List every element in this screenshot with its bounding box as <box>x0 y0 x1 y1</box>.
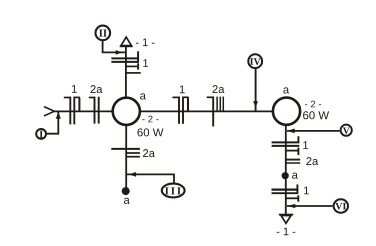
capacitor 1 (right stem upper) <box>272 136 300 155</box>
wire from node VI to right stem <box>287 205 333 207</box>
wire: main horizontal left segment <box>54 110 112 112</box>
arrow down at main wire from IV <box>253 101 258 107</box>
node II terminal circle <box>96 26 111 41</box>
label a (left stem bottom) <box>124 198 130 204</box>
label a at tube V1 <box>140 93 146 99</box>
tube V1 circle (left, 60 W) <box>113 98 140 125</box>
wire: right tube cathode stem down <box>285 126 287 214</box>
wire from node II to antenna stem <box>103 41 126 52</box>
node V terminal circle <box>341 125 352 136</box>
label - 1 - (bottom) <box>277 228 296 236</box>
antenna symbol - 1 - (triangle up) <box>120 37 133 46</box>
wire from node V to right stem <box>287 130 340 132</box>
label 1 (middle) <box>180 85 185 93</box>
label 2a <box>91 85 103 93</box>
label 2a (left tube cathode) <box>143 149 155 157</box>
capacitor 2a (left, on main wire) <box>89 97 99 124</box>
label 1 <box>72 85 77 93</box>
capacitor 1 (left, on main wire) <box>64 97 80 125</box>
capacitor 1 (antenna branch) <box>111 51 140 73</box>
node I terminal circle <box>36 129 46 139</box>
wire from node IV down to main wire <box>255 69 257 111</box>
arrow left at left stem from III <box>129 172 136 177</box>
junction dot a (right stem) <box>282 172 289 179</box>
label 1 (right stem lower) <box>304 187 309 195</box>
label 2a (right stem) <box>306 157 318 165</box>
label a at tube V2 <box>283 87 289 93</box>
node IV terminal circle <box>248 54 262 68</box>
wire: main horizontal middle segment <box>141 110 273 112</box>
capacitor 2a (right stem) <box>286 160 300 163</box>
tube V2 circle (right, 60 W) <box>273 98 300 125</box>
capacitor 1 (middle, on main wire) <box>172 97 188 124</box>
label - 2 - at tube V1 <box>142 116 158 123</box>
label 60 W at tube V2 <box>303 111 329 119</box>
label - 2 - at tube V2 <box>305 101 321 108</box>
arrow up at main wire from I <box>56 112 61 119</box>
capacitor 2a (middle, on main wire) <box>207 97 224 127</box>
arrow right at antenna stem from II <box>116 50 123 55</box>
antenna stem wire <box>125 46 127 96</box>
wire from node I to main wire <box>47 112 59 134</box>
label 1 (right stem upper) <box>303 141 308 149</box>
arrow left at right stem from VI <box>287 204 295 208</box>
capacitor 1 (right stem lower) <box>272 184 299 201</box>
node III terminal circle <box>162 184 185 198</box>
label 60 W at tube V1 <box>137 128 163 136</box>
arrow left at right stem from V <box>287 129 294 134</box>
label 1 (antenna branch) <box>143 59 148 67</box>
ground symbol - 1 - (triangle down) <box>279 215 293 224</box>
node VI terminal circle <box>334 199 348 212</box>
wire: input chevron <box>44 107 54 116</box>
junction dot a (left stem bottom) <box>122 187 130 195</box>
label a (right stem) <box>292 173 298 179</box>
capacitor 2a (left tube cathode) <box>111 149 140 157</box>
label 2a (middle) <box>213 85 225 93</box>
label - 1 - (antenna) <box>136 39 155 47</box>
wire from node III to left stem <box>127 174 174 183</box>
wire: left tube cathode stem down <box>125 126 127 190</box>
